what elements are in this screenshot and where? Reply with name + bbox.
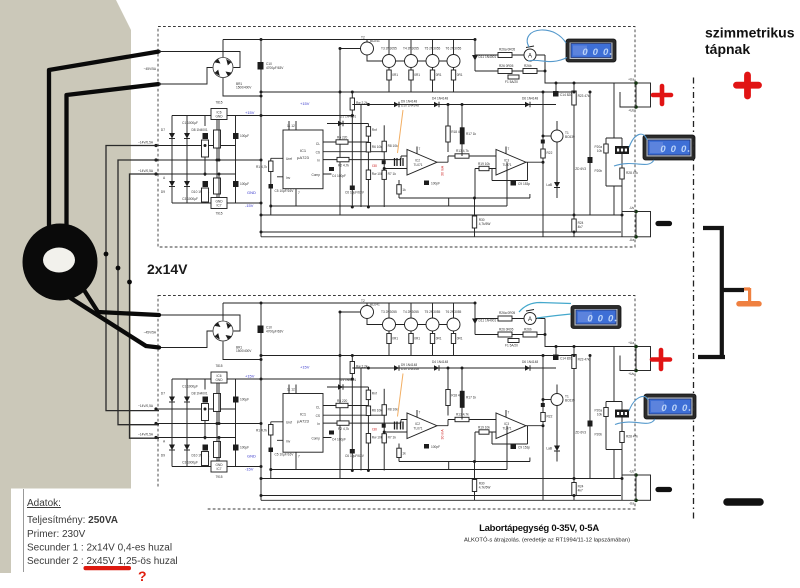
wire 45V primary ch2 top (thick) (84, 290, 159, 315)
meter wire (615, 419, 655, 425)
dashed enclosure border channel 1 (158, 27, 635, 248)
wire 45V primary ch2 bottom (thick) (69, 297, 159, 348)
sidebar band (khaki) (0, 0, 131, 573)
ammeter LCD channel 2 (571, 306, 621, 329)
meter wire (629, 396, 648, 411)
svg-text:ALKOTÓ-s átrajzolás. (eredetij: ALKOTÓ-s átrajzolás. (eredetije az RT199… (464, 537, 630, 544)
svg-text:Secunder 2 : 2x45V 1,25-ös huz: Secunder 2 : 2x45V 1,25-ös huzal (27, 556, 178, 567)
voltmeter LCD channel 1 (643, 135, 695, 160)
wire 45V primary ch1 bottom (thick) (67, 84, 160, 232)
channel 1 schematic (138, 36, 650, 243)
red underline mark (84, 566, 132, 570)
svg-text:?: ? (138, 568, 147, 584)
ground symbol (orange) (744, 288, 750, 301)
wire 14V winding c (130, 174, 160, 438)
big minus output (727, 498, 760, 506)
svg-text:Adatok:: Adatok: (27, 498, 61, 509)
meter wire (614, 160, 654, 166)
meter wire (519, 303, 571, 313)
output plus terminal ch1 (red) (653, 86, 671, 104)
dashed enclosure border channel 2 (158, 296, 635, 510)
svg-text:szimmetrikus: szimmetrikus (705, 25, 795, 41)
junction toroid taps (104, 252, 109, 257)
channel 2 schematic (138, 299, 650, 506)
svg-text:2x14V: 2x14V (147, 261, 188, 277)
svg-text:Secunder 1 : 2x14V 0,4-es huza: Secunder 1 : 2x14V 0,4-es huzal (27, 543, 172, 554)
data panel white background (11, 489, 207, 588)
voltmeter LCD channel 2 (644, 394, 696, 419)
output minus terminal ch2 (658, 487, 670, 492)
output plus terminal ch2 (red) (652, 350, 670, 369)
meter wire (537, 314, 571, 318)
big plus output (red) (737, 75, 759, 96)
meter wire (527, 30, 566, 47)
svg-text:tápnak: tápnak (705, 41, 750, 57)
meter wire (629, 134, 647, 147)
meter wire (528, 58, 567, 62)
wire 45V primary ch1 top (thick) (49, 52, 159, 231)
wire 14V winding a (106, 146, 159, 411)
toroidal transformer TR1 (23, 224, 98, 301)
svg-text:Primer: 230V: Primer: 230V (27, 529, 86, 540)
data panel border line (23, 489, 25, 572)
wire 14V winding b (118, 160, 159, 425)
output minus terminal ch1 (658, 221, 670, 226)
svg-text:Labortápegység 0-35V, 0-5A: Labortápegység 0-35V, 0-5A (479, 523, 599, 534)
wire common bracket (thick) (698, 228, 744, 357)
svg-text:Teljesítmény: 250VA: Teljesítmény: 250VA (27, 515, 118, 526)
separator dash-dot line (693, 78, 695, 521)
ammeter LCD channel 1 (566, 39, 616, 62)
